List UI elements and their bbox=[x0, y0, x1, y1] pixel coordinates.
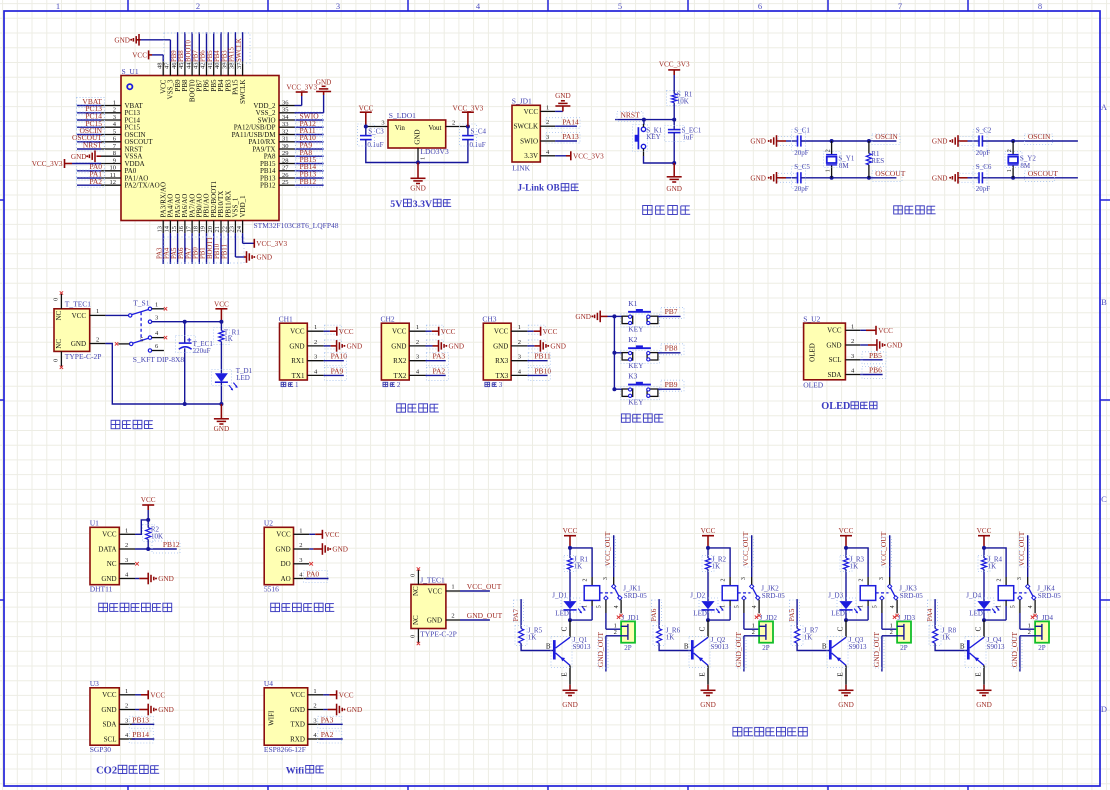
svg-text:0: 0 bbox=[53, 298, 60, 301]
svg-text:B: B bbox=[822, 642, 827, 650]
wire trunk to K3 bbox=[614, 388, 621, 390]
resistor J_R5 1K base bbox=[519, 599, 554, 650]
mcu U1 pin 36 VDD_2 bbox=[253, 99, 294, 110]
node junction led/coil/collector 4 bbox=[982, 618, 986, 622]
capacitor S_C6 20pF bbox=[976, 163, 992, 193]
power VCC at U4 pin1 bbox=[323, 690, 353, 699]
ch2 comment serial-port 2 bbox=[383, 381, 401, 389]
mcu U1 pin 47 VSS_3 bbox=[164, 61, 175, 99]
svg-text:10K: 10K bbox=[677, 97, 689, 105]
mcu U1 pin 1 VBAT bbox=[101, 99, 144, 110]
svg-text:NC: NC bbox=[55, 339, 63, 349]
wire key to gnd rail bbox=[644, 124, 675, 163]
ch1 pin 1 VCC bbox=[290, 324, 324, 335]
oled pin 3 SCL bbox=[829, 353, 861, 364]
svg-text:E: E bbox=[561, 672, 569, 676]
U2 pin 3 DO bbox=[281, 557, 310, 568]
wire net PB10 from U1 pin 21 bbox=[220, 233, 222, 264]
wire R1 to LED bbox=[220, 342, 222, 374]
relay pin 3 VCC_OUT wire 3 bbox=[879, 535, 890, 584]
node junction VCC/pin1 bbox=[146, 518, 150, 522]
svg-text:5: 5 bbox=[597, 605, 603, 608]
svg-text:6: 6 bbox=[758, 1, 762, 11]
resistor J_R2 1K bbox=[705, 548, 726, 570]
connector J_JD1 body bbox=[621, 621, 635, 642]
jd1 pin numbers bbox=[614, 623, 617, 637]
power VCC_3V3 (reset) bbox=[659, 61, 690, 76]
svg-text:3: 3 bbox=[518, 354, 521, 361]
wire VCC to relay coil 1 bbox=[570, 548, 592, 577]
jd2 designator J_JD2 bbox=[755, 614, 778, 622]
connector T_TEC1 body bbox=[54, 309, 90, 352]
svg-text:PB7: PB7 bbox=[665, 307, 678, 316]
svg-text:S_U2: S_U2 bbox=[803, 314, 820, 323]
wire net PB11 from U1 pin 22 bbox=[227, 233, 229, 264]
jd2 pin numbers bbox=[752, 623, 755, 637]
selection dots VCC_OUT 1 bbox=[606, 537, 616, 567]
svg-text:LDO3V3: LDO3V3 bbox=[420, 147, 449, 156]
mcu U1 pin 44 BOOT0 bbox=[185, 61, 196, 102]
svg-text:GND: GND bbox=[289, 342, 304, 350]
svg-text:GND: GND bbox=[887, 342, 903, 350]
svg-text:3: 3 bbox=[299, 557, 302, 564]
svg-text:PA4: PA4 bbox=[164, 247, 171, 259]
wire net BOOT0 to U1 pin 44 bbox=[191, 32, 193, 61]
relay pin 4 stub 2 bbox=[752, 600, 761, 618]
resistor T_R1 1K bbox=[219, 322, 241, 344]
svg-text:GND: GND bbox=[838, 701, 854, 709]
capacitor S_C5 20pF bbox=[794, 163, 810, 193]
ground GND at jd1 pin1 bbox=[555, 92, 571, 111]
selection dots GND_OUT 2 bbox=[736, 638, 746, 668]
svg-text:2: 2 bbox=[451, 613, 454, 620]
svg-text:VCC: VCC bbox=[339, 328, 354, 336]
selection dots SWIO bbox=[296, 112, 323, 122]
mcu U1 pin1 marker circle bbox=[127, 84, 132, 89]
tec1 pin 1 VCC bbox=[90, 308, 106, 315]
ground GND (keys) bbox=[575, 311, 607, 323]
wire key trunk vertical bbox=[613, 316, 615, 389]
svg-text:2: 2 bbox=[416, 339, 419, 346]
mcu U1 pin 16 PA6/AO bbox=[178, 194, 189, 234]
selection dots PA2 bbox=[318, 731, 342, 743]
ldo pin 2 wire bbox=[446, 126, 468, 128]
switch pin3 wire to VCC node bbox=[152, 321, 222, 323]
switch pin4 stub bbox=[152, 330, 168, 339]
mcu U1 pin 22 PB11/RX bbox=[221, 191, 232, 234]
mcu U1 pin 10 PA0 bbox=[101, 165, 137, 176]
relay coil J_JK3 box bbox=[860, 586, 876, 601]
selection dots PA10 bbox=[325, 353, 347, 366]
wire net OSCOUT to U1 pin 6 bbox=[77, 141, 101, 143]
selection dots top labels bbox=[164, 33, 250, 63]
ground GND at oled pin2 bbox=[860, 339, 902, 351]
svg-text:GND_OUT: GND_OUT bbox=[467, 611, 503, 620]
svg-text:1: 1 bbox=[720, 605, 726, 608]
mcu U1 pin 34 SWIO bbox=[258, 114, 295, 125]
selection dots ch2 pin1 bbox=[426, 325, 443, 334]
svg-text:VCC: VCC bbox=[839, 527, 854, 535]
svg-text:LED: LED bbox=[555, 609, 569, 617]
selection dots ch3 pin1 bbox=[528, 325, 545, 334]
title power circuit bbox=[111, 420, 120, 428]
U3 pin 4 SCL bbox=[104, 732, 135, 743]
svg-text:PB0: PB0 bbox=[193, 247, 200, 259]
svg-text:RXD: RXD bbox=[290, 735, 305, 743]
resistor J_R8 1K base bbox=[933, 599, 968, 650]
svg-text:2: 2 bbox=[96, 336, 99, 343]
wire VCC_3V3 to R1 bbox=[673, 75, 675, 94]
wire K2 to net PB8 bbox=[658, 352, 681, 354]
regulator U LDO1 body bbox=[388, 120, 446, 148]
svg-text:PA14: PA14 bbox=[562, 117, 579, 126]
svg-text:1K: 1K bbox=[574, 562, 583, 570]
wire net PB9 to U1 pin 46 bbox=[177, 32, 179, 61]
wire J_JD4 pin2 to GND_OUT 4 bbox=[1020, 636, 1035, 672]
switch pin6 stub bbox=[152, 343, 164, 350]
node junction led/coil/collector 3 bbox=[844, 618, 848, 622]
wire net PB13 at U3 pin3 bbox=[132, 723, 155, 725]
svg-text:DATA: DATA bbox=[98, 545, 116, 553]
selection dots PB14 bbox=[296, 163, 323, 173]
jtec1 pin names bbox=[412, 586, 443, 625]
ground GND at U3 pin2 bbox=[135, 704, 174, 716]
svg-text:J_TEC1: J_TEC1 bbox=[420, 575, 445, 584]
mcu U1 pin 4 PC15 bbox=[101, 121, 141, 132]
svg-text:VCC_3V3: VCC_3V3 bbox=[32, 160, 63, 168]
wire gnd to S_C1 bbox=[786, 140, 798, 142]
svg-text:J_JD2: J_JD2 bbox=[760, 614, 778, 622]
svg-text:K3: K3 bbox=[628, 372, 637, 381]
svg-text:TYPE-C-2P: TYPE-C-2P bbox=[420, 629, 457, 638]
svg-text:2: 2 bbox=[125, 542, 128, 549]
svg-text:VCC_3V3: VCC_3V3 bbox=[453, 105, 484, 113]
svg-text:GND: GND bbox=[101, 575, 116, 583]
power VCC (relay stage 2) bbox=[701, 527, 716, 548]
wire net PB14 from U1 pin 27 bbox=[295, 170, 324, 172]
svg-text:1: 1 bbox=[56, 1, 60, 11]
ground GND at U2 pin2 bbox=[309, 543, 348, 555]
svg-text:S_KFT DIP-8X8: S_KFT DIP-8X8 bbox=[133, 355, 185, 364]
jd4 designator J_JD4 bbox=[1031, 614, 1054, 622]
relay pin 3 VCC_OUT wire 4 bbox=[1017, 535, 1028, 584]
U2 pin3 no connect bbox=[309, 562, 313, 566]
mcu U1 pin 15 PA5/AO bbox=[171, 194, 182, 234]
svg-text:1K: 1K bbox=[666, 633, 675, 641]
svg-text:5V: 5V bbox=[390, 199, 402, 210]
svg-text:K2: K2 bbox=[628, 335, 637, 344]
connector S_JD1 body bbox=[512, 105, 540, 162]
svg-text:5: 5 bbox=[113, 128, 116, 135]
svg-text:PB12: PB12 bbox=[163, 540, 180, 549]
svg-text:GND: GND bbox=[71, 340, 86, 348]
svg-text:10: 10 bbox=[110, 165, 117, 172]
svg-text:GND: GND bbox=[555, 92, 571, 100]
power VCC (relay stage 3) bbox=[839, 527, 854, 548]
title reset circuit bbox=[643, 206, 652, 215]
svg-text:5516: 5516 bbox=[264, 585, 279, 594]
svg-text:PB3: PB3 bbox=[221, 50, 228, 62]
svg-text:SWCLK: SWCLK bbox=[236, 38, 243, 62]
svg-text:2: 2 bbox=[452, 120, 455, 127]
svg-text:TX3: TX3 bbox=[495, 372, 508, 380]
svg-text:1: 1 bbox=[858, 605, 864, 608]
mcu U1 pin 40 PB4 bbox=[214, 61, 225, 91]
wire J_R2 to led bbox=[707, 569, 709, 601]
selection dots OSCOUT bbox=[77, 134, 105, 144]
led T_D1 LED bbox=[215, 367, 253, 390]
mcu U1 pin 7 NRST bbox=[101, 143, 143, 154]
svg-text:8M: 8M bbox=[1020, 162, 1031, 170]
ch1 pin 3 RX1 bbox=[291, 354, 323, 365]
svg-text:S_C1: S_C1 bbox=[794, 126, 810, 134]
svg-text:1: 1 bbox=[125, 527, 128, 534]
svg-text:19: 19 bbox=[200, 226, 207, 233]
svg-text:PB10: PB10 bbox=[214, 243, 221, 259]
svg-text:VCC: VCC bbox=[524, 108, 539, 116]
svg-text:41: 41 bbox=[207, 63, 214, 70]
jd1 designator J_JD1 bbox=[617, 614, 640, 622]
node junction S_Y2 top bbox=[1011, 139, 1015, 143]
svg-text:VCC: VCC bbox=[102, 691, 117, 699]
selection dots J_R4 bbox=[978, 556, 990, 572]
mcu U1 pin 5 OSCIN bbox=[101, 128, 146, 139]
jd1 pin 1 VCC bbox=[524, 104, 556, 115]
svg-text:23: 23 bbox=[229, 226, 236, 233]
svg-text:PB4: PB4 bbox=[214, 50, 221, 62]
node junction LDO gnd rail bbox=[416, 161, 420, 165]
svg-text:OLED: OLED bbox=[803, 380, 824, 389]
led J_D3 LED bbox=[828, 592, 861, 618]
svg-text:NC: NC bbox=[107, 560, 117, 568]
svg-text:LED: LED bbox=[693, 609, 707, 617]
wire J_JD2 pin2 to GND_OUT 2 bbox=[744, 636, 759, 672]
mcu U1 pin 32 PA11/USB/DM bbox=[232, 128, 295, 139]
svg-text:17: 17 bbox=[185, 225, 192, 232]
svg-text:AO: AO bbox=[281, 575, 291, 583]
power VCC_3V3 at U1 pin 36 bbox=[286, 84, 317, 106]
node junction EC1 bottom bbox=[183, 402, 187, 406]
wire net PA0 to U1 pin 10 bbox=[77, 170, 101, 172]
svg-text:15: 15 bbox=[171, 226, 178, 233]
ch1 pin 2 GND bbox=[289, 339, 323, 350]
svg-text:2: 2 bbox=[397, 381, 401, 389]
svg-text:36: 36 bbox=[282, 99, 289, 106]
mcu U1 pin 13 PA3/RX/AO bbox=[156, 182, 167, 233]
relay coil pin 1 stage 1 bbox=[570, 600, 592, 620]
svg-text:TX1: TX1 bbox=[292, 372, 305, 380]
U1 pin 3 NC bbox=[107, 557, 135, 568]
transistor J_Q2 S9013 bbox=[692, 620, 729, 685]
mcu U1 pin 46 PB9 bbox=[171, 61, 182, 91]
svg-text:1: 1 bbox=[420, 157, 427, 160]
border zone labels right A-D bbox=[1101, 102, 1108, 714]
wire net PA5 from U1 pin 15 bbox=[177, 233, 179, 264]
wire S_C5 to OSCOUT bbox=[801, 177, 897, 179]
svg-text:B: B bbox=[546, 642, 551, 650]
wire relay pin5 to J_JD1 pin1 bbox=[606, 628, 621, 630]
svg-text:GND: GND bbox=[826, 341, 841, 349]
svg-text:25: 25 bbox=[282, 179, 289, 186]
wire gnd to S_C2 bbox=[968, 140, 980, 142]
mcu U1 body bbox=[121, 76, 279, 221]
U4 pin 4 RXD bbox=[290, 732, 323, 743]
svg-text:VCC: VCC bbox=[72, 312, 87, 320]
svg-text:8: 8 bbox=[1038, 1, 1042, 11]
svg-text:RX2: RX2 bbox=[393, 357, 407, 365]
power VCC (relay stage 1) bbox=[563, 527, 578, 548]
led J_D1 LED bbox=[552, 592, 585, 618]
svg-text:S_U1: S_U1 bbox=[122, 67, 139, 76]
selection dots PA3 bbox=[318, 716, 342, 728]
svg-text:3.3V: 3.3V bbox=[524, 152, 538, 160]
power VCC (DHT11) bbox=[141, 496, 156, 510]
relay pin 4 stub 3 bbox=[890, 600, 899, 618]
selection dots T_EC1 bbox=[176, 336, 196, 353]
svg-text:J-Link OB: J-Link OB bbox=[518, 183, 560, 193]
svg-text:1K: 1K bbox=[942, 633, 951, 641]
capacitor S_EC1 1uF bbox=[668, 127, 702, 142]
power VCC_3V3 (LDO output) bbox=[453, 105, 484, 127]
module U3 body bbox=[90, 688, 119, 745]
svg-text:PB8: PB8 bbox=[178, 50, 185, 62]
svg-text:OSCIN: OSCIN bbox=[1028, 132, 1051, 141]
key K1 KEY bbox=[622, 299, 658, 334]
svg-text:ESP8266-12F: ESP8266-12F bbox=[264, 745, 306, 754]
svg-text:PA2: PA2 bbox=[89, 177, 102, 186]
node junction gnd rail bbox=[672, 161, 676, 165]
selection dots key K3 bbox=[621, 387, 660, 400]
svg-text:S9013: S9013 bbox=[711, 643, 729, 651]
node junction NRST/key bbox=[642, 118, 646, 122]
wire NRST node to EC1 bbox=[673, 120, 675, 130]
svg-text:7: 7 bbox=[898, 1, 902, 11]
svg-text:14: 14 bbox=[164, 225, 171, 232]
ch2 pin 1 VCC bbox=[392, 324, 426, 335]
U1 pin 2 DATA bbox=[98, 542, 135, 553]
svg-text:U2: U2 bbox=[264, 518, 273, 527]
svg-text:SRD-05: SRD-05 bbox=[1038, 592, 1061, 600]
svg-text:Vout: Vout bbox=[428, 124, 441, 132]
crystal S_Y1 8M bbox=[825, 141, 854, 178]
wire net NRST bbox=[615, 119, 674, 121]
svg-text:J_JD4: J_JD4 bbox=[1036, 614, 1054, 622]
node junction VCC/C3 bbox=[364, 125, 368, 129]
svg-text:45: 45 bbox=[178, 63, 185, 70]
svg-text:GND: GND bbox=[750, 138, 766, 146]
mcu U1 pin 31 PA10/RX bbox=[249, 136, 295, 147]
mcu U1 pin 20 PB2/BOOT1 bbox=[207, 180, 218, 233]
svg-text:9: 9 bbox=[113, 157, 116, 164]
selection dots S_C1 wire bbox=[778, 137, 796, 146]
wire net PA12 from U1 pin 33 bbox=[295, 126, 324, 128]
selection dots PB10 bbox=[528, 367, 550, 380]
capacitor S_C3 bbox=[360, 127, 384, 149]
svg-text:42: 42 bbox=[200, 63, 207, 70]
ch3 pin 4 TX3 bbox=[495, 368, 527, 379]
svg-text:4: 4 bbox=[614, 605, 620, 608]
selection dots S_C2 bbox=[973, 130, 987, 152]
selection dots PB13 bbox=[296, 170, 323, 180]
svg-text:12: 12 bbox=[110, 179, 117, 186]
wire net PA3 bbox=[426, 360, 446, 362]
jd3 pin numbers bbox=[890, 623, 893, 637]
power GND at U1 pin 47 bbox=[114, 34, 170, 61]
svg-text:S_LDO1: S_LDO1 bbox=[389, 111, 416, 120]
svg-text:GND: GND bbox=[71, 153, 87, 161]
wire net PA7 from U1 pin 17 bbox=[191, 233, 193, 264]
svg-text:U4: U4 bbox=[264, 679, 273, 688]
node junction S_Y2 bottom bbox=[1011, 176, 1015, 180]
relay switch armature J_JK1 bbox=[600, 584, 648, 600]
wire net PB12 from U1 pin 25 bbox=[295, 184, 324, 186]
svg-text:PA13: PA13 bbox=[562, 132, 579, 141]
selection dots ch3 pin2 bbox=[528, 340, 545, 349]
svg-text:5: 5 bbox=[873, 605, 879, 608]
svg-text:T_S1: T_S1 bbox=[133, 298, 150, 307]
wire net PB6 to U1 pin 42 bbox=[206, 32, 208, 61]
svg-text:3.3V: 3.3V bbox=[413, 199, 432, 210]
svg-text:4: 4 bbox=[752, 605, 758, 608]
power VCC at U3 pin1 bbox=[135, 690, 165, 699]
svg-text:PB14: PB14 bbox=[132, 730, 149, 739]
connector J_JD2 body bbox=[759, 621, 773, 642]
U2 pin 1 VCC bbox=[276, 527, 309, 538]
svg-text:GND: GND bbox=[410, 185, 426, 193]
capacitor S_C4 bbox=[462, 127, 486, 149]
wire led to collector node 4 bbox=[983, 610, 985, 620]
led J_D2 LED bbox=[690, 592, 723, 618]
mcu U1 pin 27 PB14 bbox=[260, 165, 295, 176]
svg-text:GND: GND bbox=[427, 617, 442, 625]
key K3 KEY bbox=[622, 372, 658, 407]
oled pin 4 SDA bbox=[827, 368, 860, 379]
switch pin5 stub bbox=[115, 337, 143, 346]
svg-text:VCC_3V3: VCC_3V3 bbox=[286, 84, 317, 92]
U4 pin 3 TXD bbox=[291, 717, 324, 728]
svg-text:40: 40 bbox=[214, 63, 221, 70]
svg-text:18: 18 bbox=[193, 226, 200, 233]
svg-text:PB5: PB5 bbox=[207, 50, 214, 62]
wire net PB3 to U1 pin 39 bbox=[227, 32, 229, 61]
mcu U1 pin 43 PB7 bbox=[193, 61, 204, 91]
svg-text:3: 3 bbox=[113, 114, 116, 121]
mcu U1 pin 11 PA1/AO bbox=[101, 172, 148, 183]
mcu U1 pin 17 PA7/AO bbox=[185, 194, 196, 234]
switch pin1 stub bbox=[152, 301, 168, 310]
svg-text:VCC_3V3: VCC_3V3 bbox=[659, 61, 690, 69]
svg-text:PA10: PA10 bbox=[331, 352, 348, 361]
svg-text:OSCOUT: OSCOUT bbox=[875, 169, 905, 178]
svg-text:1: 1 bbox=[451, 584, 454, 591]
mcu U1 pin 18 PB0/AO bbox=[193, 193, 204, 233]
selection dots J_R2 bbox=[702, 556, 714, 572]
jd1 pin 2 SWCLK bbox=[514, 119, 556, 130]
svg-text:VCC_OUT: VCC_OUT bbox=[879, 531, 888, 566]
wire net PA2 bbox=[426, 374, 446, 376]
wire S_C1 to OSCIN bbox=[801, 140, 897, 142]
wire net PA11 from U1 pin 32 bbox=[295, 134, 324, 136]
selection dots VCC_OUT 4 bbox=[1020, 537, 1030, 567]
svg-text:VCC: VCC bbox=[441, 328, 456, 336]
power VCC at U1 pin 48 bbox=[132, 50, 163, 61]
jd1 pin 4 3.3V bbox=[524, 149, 555, 160]
svg-text:S_C3: S_C3 bbox=[368, 127, 384, 135]
node junction EC1 top bbox=[183, 320, 187, 324]
svg-text:OSCIN: OSCIN bbox=[875, 132, 898, 141]
svg-text:3: 3 bbox=[741, 577, 747, 580]
svg-text:GND: GND bbox=[276, 545, 291, 553]
